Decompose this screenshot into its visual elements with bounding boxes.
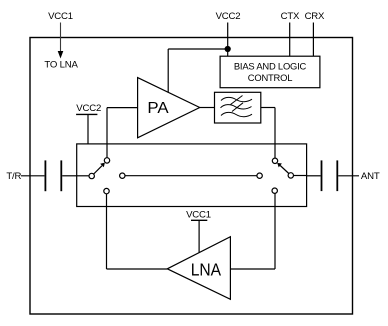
switch SW2 arm arrowhead: [277, 163, 282, 168]
wire VCC2 to PA vertical: [167, 49, 169, 93]
wire LNA input vertical to SW2 lower throw: [274, 193, 276, 269]
svg-text:VCC1: VCC1: [48, 11, 73, 22]
capacitor C1 plate right: [60, 160, 62, 191]
switch network box: [77, 144, 307, 207]
svg-text:LNA: LNA: [191, 259, 222, 279]
through path contact left: [120, 173, 125, 178]
svg-text:VCC2: VCC2: [216, 11, 241, 22]
capacitor C1 plate left: [44, 160, 46, 191]
switch SW1 lower throw contact: [104, 188, 109, 193]
svg-text:TO LNA: TO LNA: [44, 59, 78, 70]
through path contact right: [257, 173, 262, 178]
wire PA output to filter: [200, 107, 215, 109]
switch SW1 pole contact: [89, 173, 94, 178]
wire SW2 pole to box edge: [294, 175, 307, 177]
switch SW1 arm: [94, 166, 102, 174]
module boundary box: [30, 38, 353, 315]
wire PA input vertical from switch: [106, 108, 108, 158]
wire CTX: [289, 23, 291, 57]
svg-text:VCC2: VCC2: [76, 103, 101, 114]
filter F1 box: [215, 92, 261, 123]
switch SW2 upper throw contact: [272, 158, 277, 163]
op-amp LNA (low noise amplifier): [167, 237, 230, 300]
wire C2 to ANT: [338, 175, 359, 177]
arrowhead to LNA: [58, 51, 64, 59]
switch SW2 pole contact: [288, 173, 293, 178]
capacitor C2 plate left: [321, 160, 323, 191]
switch SW1 upper throw contact: [104, 158, 109, 163]
supply rail bar VCC1: [191, 219, 207, 221]
switch SW2 arm: [280, 166, 289, 174]
wire VCC2 to PA horizontal: [168, 48, 228, 50]
svg-text:CTX: CTX: [281, 11, 300, 22]
wire VCC1 to LNA: [198, 220, 200, 252]
svg-text:CRX: CRX: [305, 11, 325, 22]
wire VCC1 arrow line: [60, 23, 62, 53]
wire switch box to C2: [307, 175, 321, 177]
wire CRX: [312, 23, 314, 57]
supply rail bar VCC2: [76, 113, 97, 115]
svg-text:T/R: T/R: [6, 171, 21, 182]
switch SW1 arm arrowhead: [100, 163, 105, 168]
bias and logic control block U1: [220, 56, 320, 87]
switch SW2 lower throw contact: [272, 188, 277, 193]
wire LNA input horizontal: [230, 268, 275, 270]
svg-text:PA: PA: [147, 100, 169, 117]
svg-text:CONTROL: CONTROL: [248, 72, 292, 83]
wire filter output vertical down to switch: [274, 108, 276, 159]
wire PA input horizontal: [107, 107, 138, 109]
filter F1 slash top: [231, 96, 243, 105]
wire VCC2 vertical into bias box: [227, 23, 229, 57]
wire filter output horizontal: [261, 107, 275, 109]
wire C1 to switch box: [62, 175, 76, 177]
op-amp PA (power amplifier): [138, 78, 200, 138]
filter F1 squiggle top: [221, 97, 252, 101]
wire T/R to capacitor: [21, 175, 44, 177]
wire through path: [125, 175, 257, 177]
svg-text:BIAS AND LOGIC: BIAS AND LOGIC: [234, 61, 307, 72]
filter F1 squiggle middle: [221, 105, 252, 109]
svg-text:VCC1: VCC1: [186, 209, 211, 220]
wire switch box edge to SW1 pole: [77, 175, 89, 177]
capacitor C2 plate right: [336, 160, 338, 191]
filter F1 squiggle bottom: [221, 112, 252, 116]
wire VCC2 to switch box: [87, 114, 89, 143]
svg-text:ANT: ANT: [361, 171, 380, 182]
junction dot VCC2 node: [225, 46, 231, 52]
wire SW1 lower throw down: [106, 194, 108, 269]
filter F1 slash middle: [232, 103, 243, 112]
wire to LNA output: [107, 268, 168, 270]
